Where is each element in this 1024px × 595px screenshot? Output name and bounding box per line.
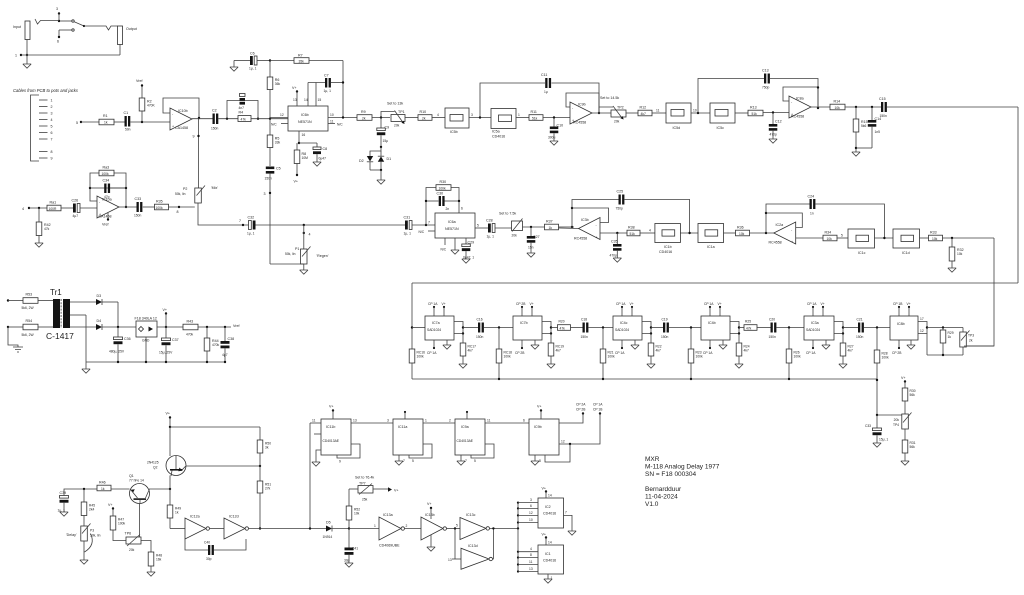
- IC4c output pins: [642, 322, 652, 335]
- svg-text:C1: C1: [124, 111, 129, 115]
- wire: [763, 111, 789, 113]
- svg-text:CP 1A: CP 1A: [807, 302, 817, 306]
- svg-text:C18: C18: [581, 318, 587, 322]
- ground C33b: [873, 443, 881, 447]
- connector CN1: [31, 95, 53, 161]
- svg-text:2: 2: [449, 419, 451, 423]
- svg-text:+: +: [791, 113, 793, 117]
- svg-text:4: 4: [530, 547, 532, 551]
- capacitor C19: [661, 318, 669, 340]
- svg-text:7: 7: [403, 459, 405, 463]
- wire secondary top: [70, 301, 96, 303]
- IC8b bottom pins: [892, 340, 915, 355]
- svg-text:Tr1: Tr1: [50, 288, 62, 297]
- svg-text:100k: 100k: [608, 355, 616, 359]
- IC2 pin7: [564, 511, 573, 532]
- svg-text:5: 5: [474, 459, 476, 463]
- svg-text:30p: 30p: [206, 557, 212, 561]
- svg-text:IC4b: IC4b: [708, 321, 716, 325]
- resistor R8: [294, 143, 309, 184]
- resistor R35a: [155, 200, 169, 210]
- capacitor C20: [769, 318, 777, 340]
- transistor Q2: [147, 456, 186, 477]
- svg-text:TP1: TP1: [398, 110, 405, 114]
- node IC8a out: [811, 107, 830, 109]
- wire: [843, 327, 858, 329]
- svg-text:20k: 20k: [394, 124, 400, 128]
- capacitor C31: [404, 216, 413, 236]
- svg-text:12: 12: [920, 329, 924, 333]
- capacitor C39: [58, 488, 98, 513]
- wire: [251, 118, 288, 120]
- ground C39: [60, 512, 68, 516]
- svg-text:R38: R38: [628, 226, 635, 230]
- svg-text:1μ, 1: 1μ, 1: [247, 232, 255, 236]
- node V+ lfo: [108, 503, 114, 516]
- wire: [652, 109, 666, 114]
- svg-text:CD4016: CD4016: [492, 135, 505, 139]
- svg-text:C21: C21: [857, 318, 863, 322]
- svg-text:IC13b: IC13b: [425, 513, 435, 517]
- resistor R7: [294, 54, 309, 64]
- wire V+ node: [157, 308, 183, 328]
- svg-text:+: +: [99, 213, 101, 217]
- wire: [551, 327, 558, 329]
- svg-text:V+: V+: [166, 412, 171, 416]
- wire: [143, 206, 155, 208]
- ground P1: [300, 270, 308, 274]
- svg-text:10k: 10k: [835, 106, 841, 110]
- svg-text:C25: C25: [617, 190, 624, 194]
- svg-text:R25: R25: [745, 320, 751, 324]
- diode D4: [70, 319, 136, 330]
- node CP 2A 2B: [559, 403, 586, 424]
- svg-text:V+: V+: [427, 502, 432, 506]
- svg-text:N/C: N/C: [271, 123, 277, 127]
- svg-text:4μ7: 4μ7: [73, 214, 79, 218]
- svg-text:1μ, 1: 1μ, 1: [404, 232, 412, 236]
- svg-text:Vref: Vref: [102, 223, 108, 227]
- wire: [691, 109, 710, 115]
- svg-text:2n: 2n: [446, 207, 450, 211]
- svg-text:IC5c: IC5c: [717, 126, 725, 130]
- wire P2 to C32: [198, 203, 249, 226]
- svg-text:50k, lin: 50k, lin: [285, 252, 296, 256]
- earth ground: [8, 327, 23, 352]
- svg-text:14: 14: [548, 541, 552, 545]
- wire jack common: [21, 40, 120, 65]
- node V+ bias: [901, 376, 906, 388]
- svg-text:SAD1024: SAD1024: [427, 328, 441, 332]
- svg-text:CP 1B: CP 1B: [893, 302, 903, 306]
- svg-text:IC8a: IC8a: [796, 97, 804, 101]
- svg-text:1: 1: [425, 419, 427, 423]
- ground P3: [80, 560, 88, 564]
- IC1 pin1: [548, 574, 553, 580]
- svg-text:7: 7: [565, 511, 567, 515]
- svg-text:100k: 100k: [118, 522, 126, 526]
- wire: [796, 237, 823, 239]
- IC7a output pins: [454, 322, 464, 335]
- IC4b bottom pins: [703, 340, 727, 355]
- wire: [114, 121, 125, 123]
- svg-text:R1: R1: [103, 114, 108, 118]
- svg-text:CP 1A: CP 1A: [703, 351, 713, 355]
- svg-text:1μ, 1: 1μ, 1: [249, 67, 257, 71]
- svg-text:750p: 750p: [616, 207, 624, 211]
- svg-text:IC7a: IC7a: [432, 321, 440, 325]
- capacitor C34: [103, 179, 111, 200]
- svg-text:13: 13: [293, 98, 297, 102]
- svg-text:27k: 27k: [265, 487, 271, 491]
- wire: [640, 229, 655, 234]
- svg-text:1N914: 1N914: [323, 535, 333, 539]
- svg-text:C5: C5: [276, 167, 281, 171]
- IC11b left pins: [310, 419, 321, 463]
- resistor R31: [902, 440, 916, 461]
- IC11a feedback loop: [409, 444, 432, 458]
- svg-text:Q2: Q2: [153, 466, 158, 470]
- IC9a feedback loop: [471, 444, 494, 458]
- inverter IC13a: [349, 513, 408, 548]
- svg-text:P1: P1: [295, 247, 299, 251]
- wire: [516, 113, 529, 118]
- wire clock line: [249, 527, 327, 529]
- resistor Ra1: [47, 201, 61, 211]
- svg-text:+: +: [791, 240, 793, 244]
- svg-text:C26: C26: [72, 199, 79, 203]
- svg-text:CD4016: CD4016: [543, 559, 556, 563]
- resistor R15: [853, 107, 867, 152]
- svg-text:C36: C36: [124, 337, 131, 341]
- svg-text:IC9b: IC9b: [578, 103, 586, 107]
- svg-text:5k6, 2W: 5k6, 2W: [22, 333, 35, 337]
- svg-text:V+: V+: [294, 180, 299, 184]
- IC2 CD4016: [538, 498, 564, 528]
- svg-text:4: 4: [649, 229, 651, 233]
- svg-text:8: 8: [530, 553, 532, 557]
- capacitor C40: [185, 539, 246, 561]
- svg-text:100R: 100R: [49, 207, 58, 211]
- op-amp IC3b: [574, 218, 600, 241]
- node Vref out: [233, 324, 239, 328]
- svg-text:10: 10: [693, 109, 697, 113]
- svg-text:100k: 100k: [794, 355, 802, 359]
- flipflop IC11b: [321, 419, 351, 455]
- ground R15 C14: [852, 152, 860, 156]
- svg-text:V+: V+: [394, 489, 399, 493]
- resistor R43: [183, 320, 231, 337]
- svg-text:14: 14: [548, 494, 552, 498]
- svg-text:9: 9: [51, 157, 53, 161]
- IC11a top pin: [404, 411, 406, 419]
- node 3: [56, 7, 60, 22]
- svg-text:1k: 1k: [549, 226, 553, 230]
- svg-text:Input: Input: [13, 25, 21, 29]
- node V+ IC2: [542, 487, 552, 499]
- svg-text:CD4013AE: CD4013AE: [457, 439, 474, 443]
- IC7b top pins: [516, 302, 534, 316]
- svg-text:IC8b: IC8b: [897, 322, 905, 326]
- svg-text:36k: 36k: [275, 82, 281, 86]
- ground IC6a: [451, 250, 459, 254]
- wire: [372, 116, 390, 118]
- svg-text:C29: C29: [468, 241, 475, 245]
- svg-text:2: 2: [406, 524, 408, 528]
- svg-text:R11: R11: [531, 110, 537, 114]
- svg-text:16: 16: [302, 133, 306, 137]
- wire: [447, 527, 461, 529]
- capacitor C38: [221, 327, 235, 362]
- capacitor C7: [308, 74, 344, 94]
- resistor R25: [744, 320, 757, 331]
- inverter IC12d: [224, 515, 249, 540]
- resistor R34: [823, 231, 837, 241]
- svg-text:4k7: 4k7: [848, 349, 853, 353]
- svg-text:C33: C33: [865, 424, 871, 428]
- capacitor C30: [437, 192, 450, 212]
- ground IC2: [568, 531, 576, 535]
- svg-text:IC13c: IC13c: [466, 513, 476, 517]
- svg-text:150n: 150n: [661, 335, 669, 339]
- resistor R36: [736, 226, 750, 236]
- svg-text:1: 1: [15, 54, 17, 58]
- svg-text:R46: R46: [99, 481, 106, 485]
- svg-text:0μ47: 0μ47: [319, 157, 327, 161]
- svg-text:Output: Output: [126, 27, 137, 31]
- IC7a bottom pins: [427, 340, 451, 355]
- wire to mix pot: [193, 119, 200, 188]
- svg-text:Q1: Q1: [129, 474, 134, 478]
- svg-text:V+: V+: [542, 533, 547, 537]
- svg-text:R10: R10: [420, 110, 427, 114]
- svg-text:IC1a: IC1a: [707, 245, 715, 249]
- node CP 1A 1B: [545, 403, 603, 463]
- op-amp IC10a: [97, 196, 119, 219]
- resistor R1: [99, 114, 114, 125]
- svg-text:4k7: 4k7: [556, 349, 561, 353]
- svg-text:D2: D2: [359, 159, 364, 163]
- wire feedback IC3b: [559, 207, 609, 229]
- svg-text:1μ, 1: 1μ, 1: [487, 235, 495, 239]
- svg-text:R30: R30: [440, 180, 447, 184]
- svg-text:5: 5: [76, 121, 78, 125]
- resistor R11: [529, 110, 543, 120]
- svg-text:5: 5: [456, 524, 458, 528]
- ground C35: [613, 258, 621, 262]
- wire: [412, 221, 435, 227]
- title block: [645, 456, 720, 508]
- input jack J1: [13, 21, 30, 40]
- svg-text:TP6: TP6: [125, 532, 132, 536]
- svg-text:N/C: N/C: [419, 230, 425, 234]
- svg-text:150n: 150n: [211, 127, 219, 131]
- svg-text:CP 2B: CP 2B: [576, 408, 586, 412]
- IC7a top pins: [428, 302, 446, 316]
- svg-text:56k: 56k: [910, 445, 916, 449]
- resistor R29: [940, 328, 954, 356]
- resistor R37: [545, 220, 559, 230]
- resistor R4: [238, 111, 251, 122]
- resistor R48: [141, 541, 162, 573]
- svg-text:Ra3: Ra3: [103, 166, 110, 170]
- svg-text:150n: 150n: [265, 177, 273, 181]
- svg-text:R54: R54: [26, 319, 33, 323]
- wire: [837, 234, 848, 239]
- ground C10: [550, 141, 558, 145]
- svg-text:IC2: IC2: [545, 505, 551, 509]
- svg-text:10k: 10k: [957, 252, 963, 256]
- capacitor C41: [344, 529, 358, 564]
- diode D2: [359, 147, 381, 170]
- svg-text:4n7: 4n7: [239, 106, 245, 110]
- svg-text:150n: 150n: [769, 335, 777, 339]
- connector label: [13, 88, 79, 93]
- trimmer TP6: [125, 532, 142, 553]
- inverter IC13c: [456, 513, 489, 540]
- capacitor C33b: [865, 415, 888, 443]
- node 5: [76, 121, 82, 125]
- svg-text:NE571N: NE571N: [298, 120, 312, 124]
- svg-text:R14: R14: [834, 100, 841, 104]
- svg-text:6: 6: [51, 131, 53, 135]
- svg-text:IC13d: IC13d: [468, 544, 478, 548]
- svg-text:IC5d: IC5d: [673, 126, 681, 130]
- svg-text:150n: 150n: [476, 335, 484, 339]
- svg-text:1k: 1k: [175, 511, 179, 515]
- svg-text:47k: 47k: [560, 326, 566, 330]
- capacitor C2: [211, 109, 219, 131]
- svg-text:CP 1A: CP 1A: [427, 351, 437, 355]
- capacitor C14: [856, 107, 881, 148]
- capacitor C16: [476, 318, 484, 340]
- resistor R42: [36, 208, 50, 243]
- resistor R54: [22, 319, 54, 337]
- op-amp IC8a: [789, 96, 811, 119]
- svg-text:'Mix': 'Mix': [211, 186, 218, 190]
- svg-text:IC1b: IC1b: [664, 245, 672, 249]
- output jack J2: [118, 26, 137, 45]
- svg-text:15μ: 15μ: [383, 139, 389, 143]
- svg-text:100k: 100k: [504, 355, 512, 359]
- svg-text:V+: V+: [901, 376, 906, 380]
- svg-text:TP3: TP3: [968, 334, 974, 338]
- svg-text:10k: 10k: [354, 512, 360, 516]
- wire feedback C25 loop: [572, 200, 690, 234]
- svg-text:2k: 2k: [969, 339, 973, 343]
- svg-text:2: 2: [51, 105, 53, 109]
- IC6b pin12: [270, 113, 288, 118]
- resistor R22: [647, 334, 662, 369]
- node Vref IC10a: [102, 213, 109, 227]
- wire to delay line: [887, 107, 1018, 283]
- capacitor C1: [124, 111, 131, 132]
- wire: [412, 327, 425, 329]
- ground C27: [527, 253, 535, 257]
- wire: [351, 419, 393, 424]
- wire: [81, 121, 99, 123]
- capacitor C32: [247, 216, 256, 236]
- svg-text:11-04-2024: 11-04-2024: [645, 494, 678, 501]
- svg-text:IC13a: IC13a: [383, 513, 393, 517]
- resistor R14: [830, 100, 845, 110]
- capacitor C18: [581, 318, 589, 340]
- svg-text:8: 8: [539, 459, 541, 463]
- wire: [405, 117, 418, 119]
- svg-text:6: 6: [523, 419, 525, 423]
- IC8b output pins: [918, 317, 928, 334]
- op-amp IC2a: [769, 222, 796, 245]
- svg-text:77 hFe 14: 77 hFe 14: [129, 479, 144, 483]
- svg-text:5: 5: [412, 459, 414, 463]
- svg-text:R13: R13: [750, 106, 757, 110]
- node IC10b out: [192, 117, 213, 119]
- svg-text:CD4016: CD4016: [543, 512, 556, 516]
- svg-text:IC1d: IC1d: [902, 251, 910, 255]
- svg-text:R7: R7: [298, 54, 303, 58]
- svg-text:V+: V+: [907, 302, 911, 306]
- svg-text:N/C: N/C: [337, 123, 343, 127]
- resistor R45: [81, 489, 95, 526]
- svg-text:3: 3: [51, 112, 53, 116]
- svg-text:3: 3: [471, 113, 473, 117]
- svg-text:C7: C7: [324, 74, 329, 78]
- switch IC1d: [893, 229, 920, 255]
- svg-text:C6: C6: [250, 52, 255, 56]
- svg-text:47p: 47p: [104, 195, 110, 199]
- svg-text:IC1c: IC1c: [858, 251, 866, 255]
- svg-text:CP 1A: CP 1A: [704, 302, 714, 306]
- trimmer TP3: [960, 328, 974, 356]
- capacitor C33a: [134, 197, 142, 218]
- IC11b V+ pin: [329, 405, 334, 420]
- svg-text:11: 11: [529, 560, 533, 564]
- resistor R51: [257, 481, 271, 530]
- diode D3: [96, 294, 118, 327]
- capacitor C13: [762, 69, 770, 90]
- svg-text:D1: D1: [387, 157, 392, 161]
- wire C13 feedback: [698, 79, 818, 114]
- ground C6: [230, 67, 238, 71]
- wire switch input: [35, 19, 59, 24]
- svg-text:IC9a: IC9a: [461, 425, 469, 429]
- capacitor C8: [299, 143, 327, 162]
- svg-text:1k: 1k: [948, 335, 952, 339]
- ground R31: [901, 461, 909, 465]
- svg-text:470k: 470k: [186, 333, 194, 337]
- svg-text:Bernardduur: Bernardduur: [645, 486, 682, 493]
- svg-text:R20: R20: [559, 320, 565, 324]
- IC8b top pins: [893, 302, 911, 316]
- svg-text:IC2a: IC2a: [776, 223, 784, 227]
- svg-text:4: 4: [51, 118, 53, 122]
- svg-text:CP 2B: CP 2B: [892, 351, 902, 355]
- svg-text:4: 4: [309, 233, 311, 237]
- wire Q1 emitter: [139, 504, 141, 539]
- wire feedback loops IC6a: [425, 188, 463, 226]
- svg-text:TP2: TP2: [617, 106, 624, 110]
- resistor R50: [257, 440, 271, 481]
- svg-text:C13: C13: [762, 69, 769, 73]
- switch IC5d: [666, 103, 691, 130]
- svg-text:13: 13: [353, 419, 357, 423]
- svg-text:SAD1024: SAD1024: [615, 328, 629, 332]
- resistor R30: [436, 180, 451, 190]
- svg-text:IC1: IC1: [545, 552, 551, 556]
- IC4c bottom pins: [615, 340, 639, 355]
- capacitor C3: [239, 94, 246, 111]
- svg-text:4: 4: [437, 113, 439, 117]
